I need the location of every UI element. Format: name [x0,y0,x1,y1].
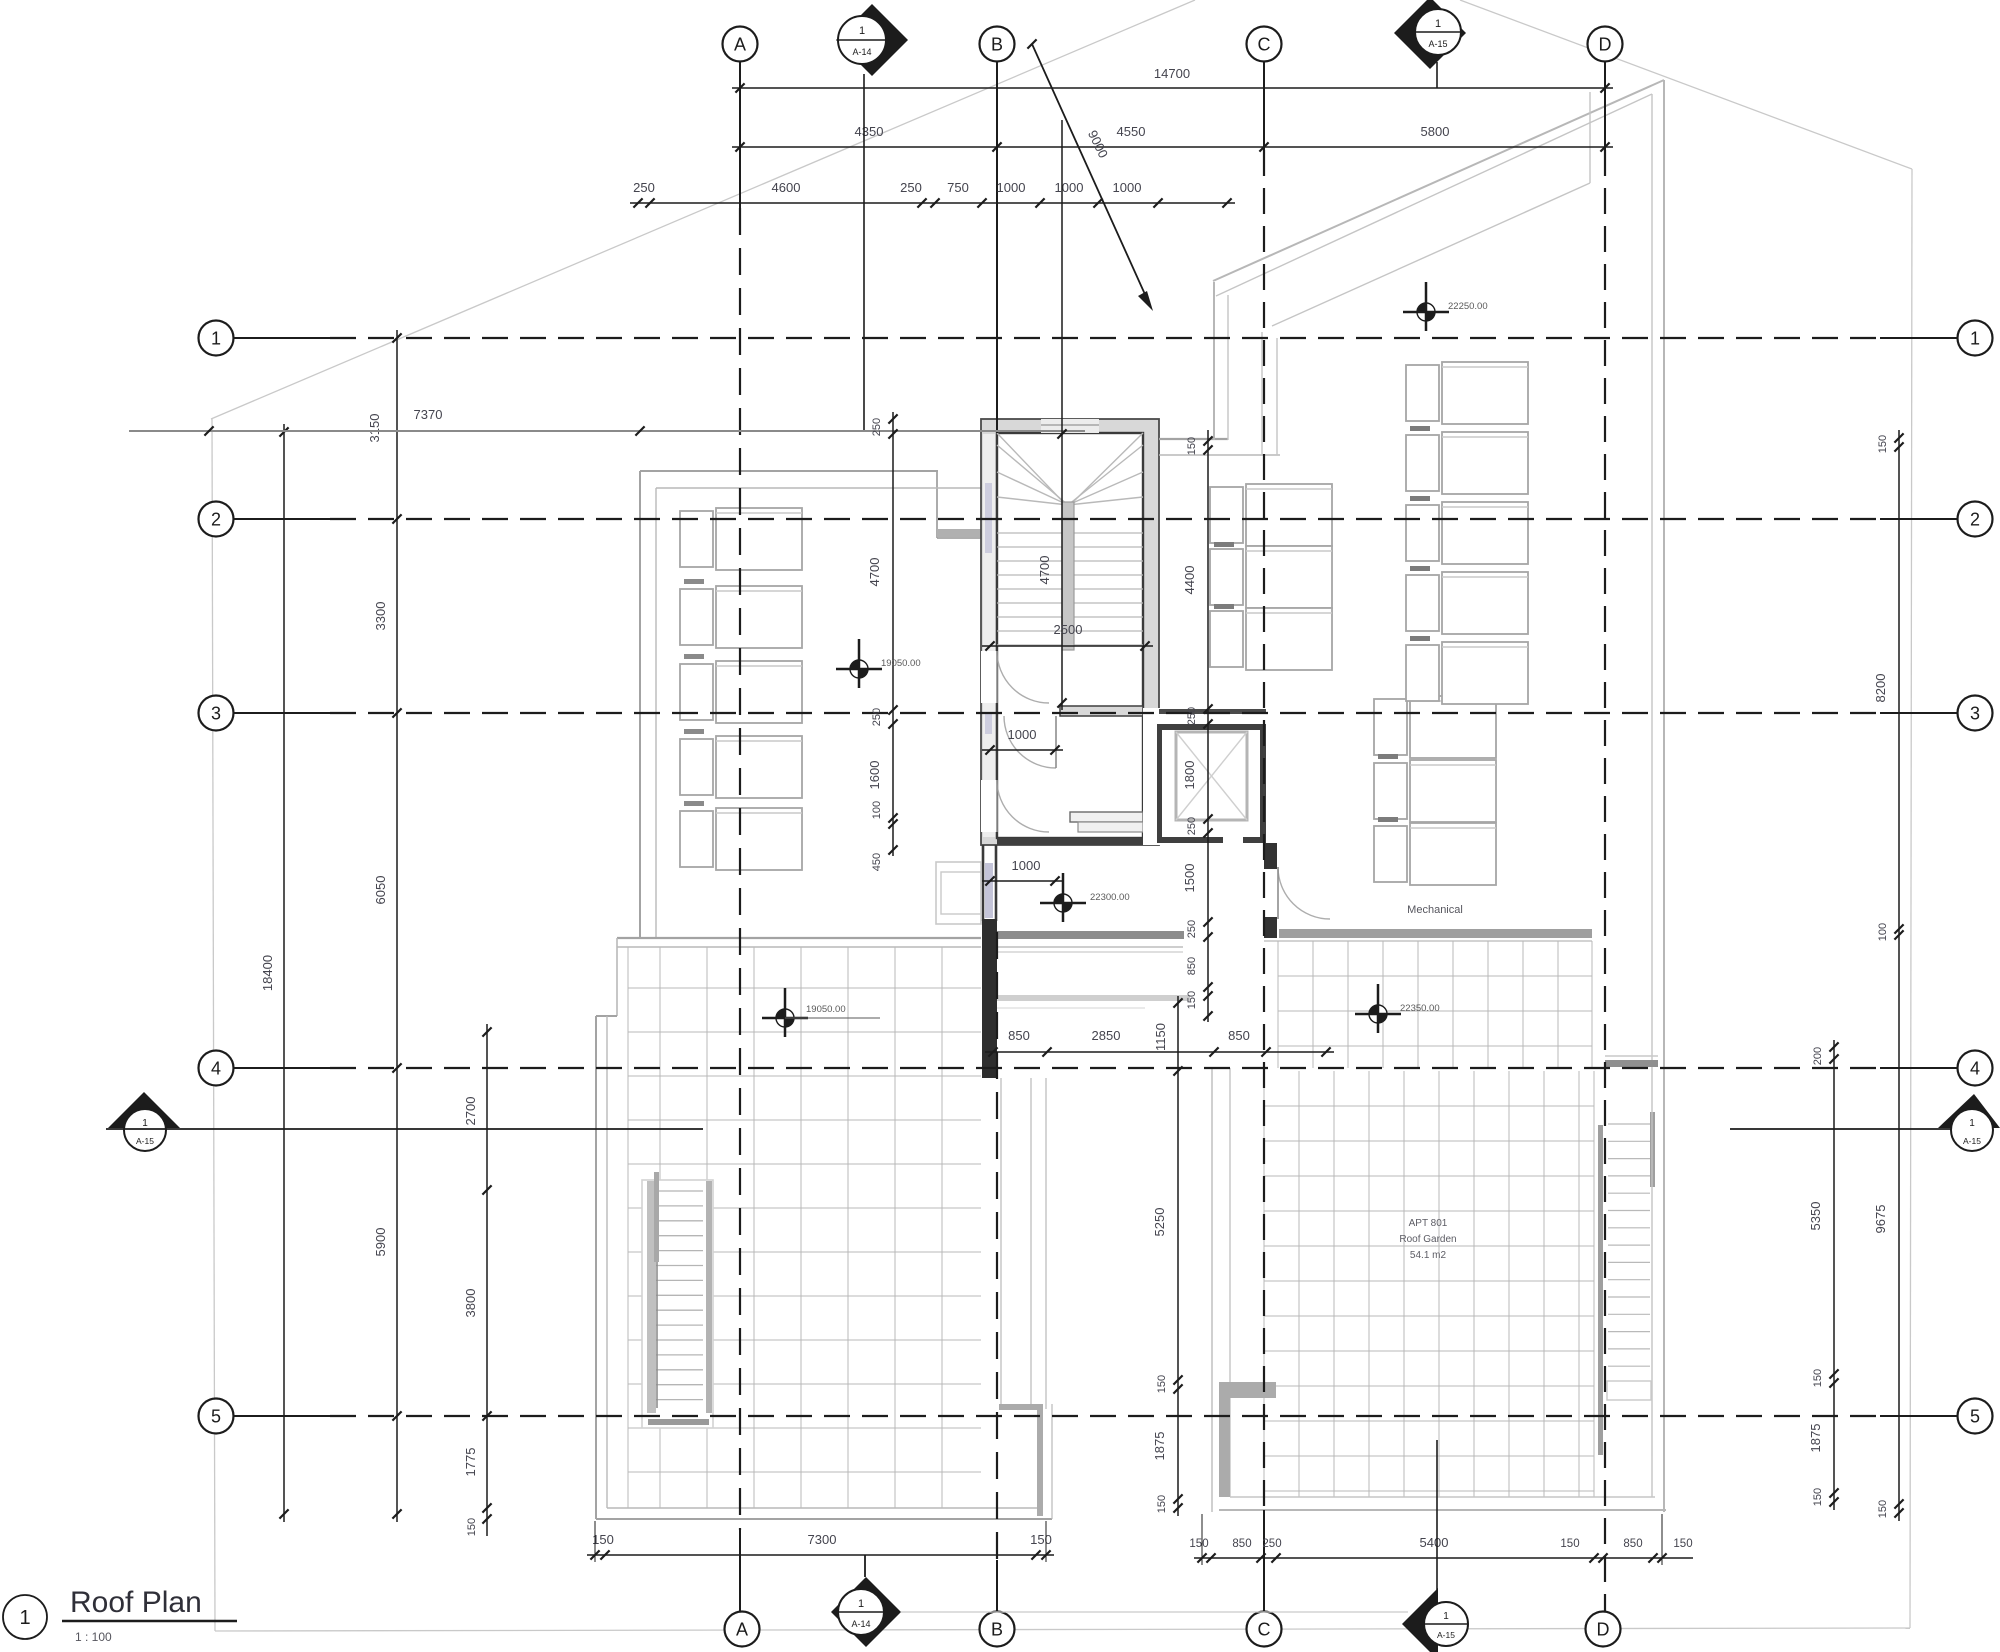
svg-text:7300: 7300 [808,1532,837,1547]
svg-text:150: 150 [1560,1538,1579,1550]
svg-text:4350: 4350 [855,124,884,139]
svg-text:5: 5 [211,1406,221,1426]
grid row 5 [233,1415,330,1417]
svg-text:A: A [734,34,746,54]
stair stringer [1062,502,1074,650]
right deck north wall [1159,438,1228,440]
svg-text:200: 200 [1812,1047,1824,1065]
grid row 3 [233,712,330,714]
level marker 22250 [1403,282,1488,331]
dim 14700 [732,87,1613,89]
property boundary [211,0,1195,419]
stair core walls [981,419,1159,845]
svg-text:150: 150 [1812,1488,1824,1506]
svg-text:22350.00: 22350.00 [1400,1003,1440,1014]
svg-text:150: 150 [1877,435,1889,453]
grid bubbles top [723,27,758,62]
svg-text:1775: 1775 [463,1448,478,1477]
svg-text:750: 750 [947,180,969,195]
grid row 2 [233,518,330,520]
dim 850/2850/850 [985,1051,1334,1053]
sloped parapet [1213,80,1664,281]
svg-text:22300.00: 22300.00 [1090,892,1130,903]
svg-text:100: 100 [1877,923,1889,941]
terrace tile grid [628,947,981,1508]
svg-text:A-15: A-15 [1963,1136,1981,1146]
section marker A-15 left [106,1092,703,1151]
chairs group C [1210,484,1332,546]
svg-text:4: 4 [1970,1058,1980,1078]
svg-text:Mechanical: Mechanical [1407,904,1463,916]
walkway south wall [997,931,1184,939]
dim 1000 upper [982,749,1063,751]
walkway lower edges [997,995,1190,1001]
grid line A [739,62,741,208]
dim 1000 lower [982,880,1063,882]
grid bubbles right [1958,321,1993,356]
svg-text:4700: 4700 [867,558,882,587]
grid line D [1604,62,1606,150]
garden stair (east) [1605,1055,1658,1057]
dim 200/5350/150/1875/150 [1833,1040,1835,1510]
svg-text:5900: 5900 [373,1228,388,1257]
svg-text:4600: 4600 [772,180,801,195]
svg-text:1150: 1150 [1153,1023,1168,1051]
svg-text:1875: 1875 [1808,1424,1823,1453]
garden bottom parapet [1230,1496,1655,1498]
svg-text:2850: 2850 [1092,1028,1121,1043]
svg-text:4700: 4700 [1037,556,1052,585]
east parapet [1663,80,1665,1512]
garden top wall [1279,929,1592,938]
svg-text:2: 2 [1970,509,1980,529]
dim 250/4600/250/750/1000x3 [630,202,1235,204]
svg-text:5: 5 [1970,1406,1980,1426]
svg-text:D: D [1597,1619,1610,1639]
svg-text:150: 150 [1877,1500,1889,1518]
svg-text:100: 100 [871,801,883,819]
svg-text:1: 1 [19,1607,30,1629]
svg-text:250: 250 [1186,817,1198,835]
svg-text:54.1 m2: 54.1 m2 [1410,1250,1447,1261]
dim 250/4700/250/1600/100/450 [892,412,894,856]
svg-text:9675: 9675 [1873,1205,1888,1234]
svg-text:A: A [736,1619,748,1639]
svg-text:1500: 1500 [1182,864,1197,893]
section marker A-15 bottom [1402,1440,1468,1652]
svg-text:1: 1 [858,1598,864,1610]
svg-text:19050.00: 19050.00 [881,658,921,669]
dim 2500 [982,645,1153,647]
svg-text:7370: 7370 [414,407,443,422]
dim col 150/4400/250/1800/250/1500/250/850/150 [1207,430,1209,1022]
left roof deck outline [640,470,938,472]
dim 2700/3800/1775/150 [486,1024,488,1536]
svg-text:150: 150 [1186,437,1198,455]
section marker A-14 top [836,4,908,430]
dim 150/7300/150 [587,1554,1054,1556]
svg-text:250: 250 [633,180,655,195]
svg-text:250: 250 [871,708,883,726]
garden tiles upper [1278,941,1592,1068]
svg-text:850: 850 [1228,1028,1250,1043]
escape stair (left terrace) [642,1180,713,1428]
svg-text:2500: 2500 [1054,622,1083,637]
svg-text:4: 4 [211,1058,221,1078]
chairs group west [680,508,802,570]
svg-text:B: B [991,34,1003,54]
svg-text:Roof Garden: Roof Garden [1399,1234,1456,1245]
grid line C [1263,62,1265,150]
svg-text:1: 1 [1435,18,1441,30]
svg-text:B: B [991,1619,1003,1639]
grid row 1 [233,337,330,339]
svg-text:6050: 6050 [373,876,388,905]
level marker 22300 [1040,873,1130,922]
west wall glazing slots [985,483,992,553]
grid bubbles left [199,321,234,356]
svg-text:150: 150 [1186,991,1198,1009]
svg-text:1: 1 [859,25,865,37]
svg-text:1000: 1000 [1008,727,1037,742]
stair treads [997,533,1143,645]
svg-text:1: 1 [142,1118,148,1129]
svg-text:A-15: A-15 [1428,39,1447,49]
svg-text:150: 150 [1189,1538,1208,1550]
elevator shaft [1143,708,1266,845]
garden left parapet [1211,1068,1213,1512]
svg-text:150: 150 [1812,1369,1824,1387]
svg-text:1: 1 [1443,1611,1449,1622]
svg-text:A-15: A-15 [136,1136,154,1146]
svg-text:5800: 5800 [1421,124,1450,139]
svg-text:850: 850 [1008,1028,1030,1043]
svg-text:2700: 2700 [463,1097,478,1126]
svg-text:250: 250 [1186,920,1198,938]
chairs group east [1406,362,1528,424]
svg-text:150: 150 [1156,1375,1168,1393]
garden door + wall [1264,843,1277,869]
svg-text:250: 250 [871,418,883,436]
svg-text:150: 150 [1030,1532,1052,1547]
svg-text:D: D [1599,34,1612,54]
svg-text:22250.00: 22250.00 [1448,301,1488,312]
svg-text:1875: 1875 [1152,1432,1167,1461]
svg-text:8200: 8200 [1873,674,1888,703]
level marker 19050 terrace [762,988,880,1037]
svg-text:1000: 1000 [1012,858,1041,873]
vestibule south wall [997,838,1143,845]
svg-text:450: 450 [871,853,883,871]
dim 3150/3300/6050/5900 [396,330,398,1522]
svg-text:850: 850 [1186,957,1198,975]
svg-text:250: 250 [1186,707,1198,725]
section marker A-15 top [1394,0,1466,88]
svg-text:3800: 3800 [463,1289,478,1318]
level marker 22350 [1355,984,1440,1033]
dim 150/8200/100/9675/150 [1898,430,1900,1521]
core lower door [981,651,997,703]
svg-text:2: 2 [211,509,221,529]
svg-text:3: 3 [1970,703,1980,723]
svg-text:1 : 100: 1 : 100 [75,1630,112,1644]
vestibule partition + door [1060,706,1143,716]
dim 150/850/250/5400/150/850/150 [1194,1557,1693,1559]
svg-text:18400: 18400 [260,955,275,991]
svg-text:19050.00: 19050.00 [806,1004,846,1015]
stair winder fan [997,433,1143,505]
svg-text:C: C [1258,34,1271,54]
utility chute [936,862,981,924]
svg-text:1: 1 [1969,1118,1975,1129]
svg-text:250: 250 [900,180,922,195]
svg-text:1: 1 [1970,328,1980,348]
svg-text:C: C [1258,1619,1271,1639]
svg-text:4400: 4400 [1182,566,1197,595]
left terrace parapet [617,937,981,939]
svg-text:3: 3 [211,703,221,723]
section marker A-15 right [1730,1094,2000,1151]
chairs group mech [1374,696,1496,758]
dim 7370 [129,430,1085,432]
svg-text:A-14: A-14 [852,47,871,57]
section marker A-14 bottom [831,1555,1408,1647]
svg-text:150: 150 [466,1518,478,1536]
walkway west wall [982,845,985,921]
svg-text:5250: 5250 [1152,1208,1167,1237]
svg-text:Roof Plan: Roof Plan [70,1586,202,1619]
grid bubbles bottom [725,1612,760,1647]
svg-text:850: 850 [1232,1538,1251,1550]
dim 18400 [283,424,285,1522]
level marker 19050 deck [836,639,921,688]
svg-text:1800: 1800 [1182,761,1197,790]
svg-text:A-15: A-15 [1437,1630,1455,1640]
title circle [3,1595,47,1639]
grid row 4 [233,1067,330,1069]
terrace bottom-right wall [999,1404,1042,1410]
deck west parapet [1213,282,1215,440]
dim 4350/4550/5800 [732,146,1613,148]
svg-text:5350: 5350 [1808,1202,1823,1231]
garden tiles lower [1264,1071,1594,1497]
svg-text:14700: 14700 [1154,66,1190,81]
vestibule bench [1070,812,1143,822]
svg-text:150: 150 [1156,1495,1168,1513]
svg-text:3300: 3300 [373,602,388,631]
svg-text:1000: 1000 [1055,180,1084,195]
svg-text:850: 850 [1623,1538,1642,1550]
svg-text:1600: 1600 [867,761,882,790]
grid line B [996,62,998,433]
svg-text:A-14: A-14 [851,1619,870,1629]
dim garden 1150/5250/150/1875/150 [1177,996,1179,1516]
svg-text:1: 1 [211,328,221,348]
svg-text:4550: 4550 [1117,124,1146,139]
svg-text:1000: 1000 [1113,180,1142,195]
svg-text:250: 250 [1262,1538,1281,1550]
svg-text:150: 150 [1673,1538,1692,1550]
elevator cab [1176,732,1247,820]
svg-text:5400: 5400 [1420,1535,1449,1550]
slope arrow 9000 [1032,44,1148,301]
svg-text:APT 801: APT 801 [1409,1218,1448,1229]
dim 4700 core [1061,120,1063,710]
vestibule door 2 [981,780,997,832]
svg-text:1000: 1000 [997,180,1026,195]
svg-text:3150: 3150 [367,414,382,443]
